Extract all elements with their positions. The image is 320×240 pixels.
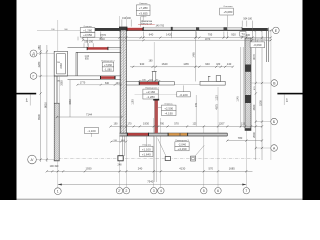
- bottom sheet edge line: [17, 199, 303, 200]
- axis bubble 3: [151, 188, 157, 194]
- axis bubble 6: [215, 188, 221, 194]
- axis bubble B right: [271, 118, 278, 125]
- svg-text:1465: 1465: [192, 52, 195, 58]
- svg-text:190 190: 190 190: [84, 41, 93, 44]
- axis bubble D left: [30, 50, 37, 57]
- svg-text:+5,080: +5,080: [223, 10, 232, 14]
- stub wall above wall V: [152, 72, 154, 82]
- thin line connecting wall V to T-wall: [175, 84, 201, 86]
- tick across left wall: [54, 102, 59, 104]
- svg-text:780: 780: [238, 136, 243, 140]
- pier between windows: [196, 27, 199, 30]
- svg-text:7144: 7144: [86, 112, 92, 116]
- svg-text:4130: 4130: [179, 167, 185, 171]
- red segment on wall V: [140, 82, 158, 85]
- mini dim line below wall B left: [111, 141, 127, 143]
- svg-text:345: 345: [195, 102, 198, 107]
- room A (stair shaft) outer rect: [54, 51, 67, 76]
- svg-text:190: 190: [51, 29, 54, 31]
- T-shaped partition wall outline: [200, 81, 225, 85]
- T4 box: [240, 32, 246, 36]
- leader from L13 to wall B: [145, 136, 147, 146]
- svg-text:3: 3: [153, 189, 155, 193]
- svg-text:А': А': [30, 158, 33, 162]
- cap of red vertical segment: [153, 99, 159, 101]
- wall on line G bottom of rooms: [54, 75, 121, 77]
- svg-text:190: 190: [114, 122, 119, 125]
- thin wall stub below wall B to column: [121, 136, 123, 156]
- svg-text:570: 570: [174, 121, 179, 125]
- axis bubble 7: [243, 188, 249, 194]
- svg-text:1770: 1770: [80, 82, 86, 85]
- axis bubble V right: [271, 80, 278, 87]
- axis bubble 2': [116, 188, 122, 194]
- svg-text:-1,080: -1,080: [104, 67, 112, 71]
- svg-text:1640: 1640: [162, 62, 168, 66]
- room B left wall double line: [75, 52, 77, 76]
- red segment on wall B: [128, 133, 148, 135]
- axis 7 vertical: [245, 34, 247, 187]
- extension ticks right wall top: [241, 21, 243, 27]
- svg-text:170: 170: [128, 122, 133, 125]
- svg-text:1190: 1190: [131, 99, 134, 105]
- svg-text:+3,655: +3,655: [139, 11, 148, 15]
- window band 1 x144-196: [144, 27, 197, 31]
- axis 5 vertical: [203, 127, 205, 188]
- svg-text:3080: 3080: [69, 99, 72, 105]
- svg-text:+7,060: +7,060: [104, 63, 113, 67]
- svg-text:+1,280: +1,280: [83, 28, 92, 32]
- svg-text:104: 104: [116, 82, 121, 85]
- axis 4 vertical: [159, 118, 161, 187]
- red segment on room B top wall: [88, 47, 108, 50]
- left vertical dim line 1: [40, 45, 42, 162]
- interior wall on line V: [126, 81, 174, 83]
- arrow heads row 3: [58, 184, 247, 186]
- vertical dim stub above wall B mid: [195, 95, 197, 126]
- red segment on wall G: [101, 76, 115, 79]
- axis bubble 2: [123, 188, 129, 194]
- svg-text:640: 640: [149, 33, 154, 37]
- top wall inner face dark continuous: [83, 29, 268, 31]
- leader from column B up right: [195, 145, 204, 156]
- svg-text:1: 1: [26, 97, 29, 102]
- svg-text:940: 940: [205, 62, 210, 66]
- thin interior line x195.5: [194, 30, 196, 81]
- svg-text:8610: 8610: [43, 102, 47, 108]
- leader to small square: [158, 139, 167, 157]
- svg-text:504 180: 504 180: [243, 17, 252, 20]
- svg-text:-4,190: -4,190: [165, 112, 174, 116]
- axis 3 vertical: [153, 118, 155, 187]
- box L10: [177, 92, 191, 97]
- top dimension line under wall E: [83, 37, 271, 39]
- right sheet inner vertical line: [270, 30, 272, 160]
- label L14: [84, 128, 98, 134]
- axis line E horizontal: [37, 29, 272, 31]
- right vertical dim line 2: [261, 30, 263, 160]
- dimension tick slashes: [82, 37, 272, 39]
- svg-text:-2,040: -2,040: [178, 143, 187, 147]
- svg-text:монолитная: монолитная: [253, 39, 266, 41]
- leader from box L10: [183, 85, 185, 91]
- svg-text:2080: 2080: [60, 80, 63, 86]
- extension ticks above room B: [83, 43, 85, 47]
- window mullion pier: [171, 27, 173, 31]
- room A inner rect: [57, 54, 66, 74]
- svg-text:2640: 2640: [252, 132, 256, 138]
- axis 6 vertical: [217, 87, 219, 187]
- leader from red wall to L11: [158, 107, 162, 109]
- left outer wall hatched lower part: [54, 103, 59, 161]
- left black margin bar: [0, 0, 17, 200]
- window band 3 x227.3-242: [227, 27, 242, 31]
- axis line B horizontal: [255, 121, 271, 123]
- svg-text:900: 900: [64, 29, 67, 31]
- mini dim line below room B: [77, 84, 121, 86]
- axis bubble 5: [201, 188, 207, 194]
- room B top wall double line: [68, 47, 121, 49]
- svg-text:+2,160: +2,160: [146, 90, 155, 94]
- svg-text:280: 280: [37, 45, 41, 50]
- svg-text:840: 840: [105, 82, 110, 85]
- svg-text:1420: 1420: [166, 33, 172, 37]
- svg-text:Г: Г: [33, 74, 35, 78]
- axis line G horizontal: [37, 75, 56, 77]
- svg-text:1970: 1970: [205, 38, 211, 41]
- svg-text:8330: 8330: [37, 114, 41, 120]
- leader from elevation box L1: [142, 16, 144, 21]
- column square on axis 2' at A': [118, 156, 123, 161]
- svg-text:2280: 2280: [60, 63, 63, 69]
- red repair segment on top wall: [127, 28, 142, 31]
- central wall head block at top: [119, 27, 127, 32]
- axis bubble 4: [158, 188, 164, 194]
- svg-text:-0,090: -0,090: [253, 43, 262, 47]
- svg-text:+4,190: +4,190: [178, 147, 187, 151]
- extension verticals from wall to dim lines: [82, 32, 84, 41]
- room width dim 7144: [57, 116, 122, 118]
- thin axis pair under red wall: [153, 136, 155, 182]
- svg-text:1207: 1207: [219, 121, 225, 125]
- svg-text:-1,100: -1,100: [87, 129, 96, 133]
- svg-text:2': 2': [118, 189, 121, 193]
- small mark on T-wall: [208, 76, 210, 81]
- svg-text:Т4: Т4: [241, 32, 245, 36]
- svg-text:-0,220: -0,220: [179, 93, 188, 97]
- svg-text:1685: 1685: [229, 167, 235, 171]
- svg-text:248: 248: [118, 164, 123, 167]
- svg-text:190 190: 190 190: [50, 165, 59, 168]
- right black margin bar: [303, 0, 320, 200]
- svg-text:180: 180: [149, 60, 154, 63]
- axis line A' dash-dot across plan: [58, 158, 260, 160]
- svg-text:1465: 1465: [183, 63, 189, 66]
- leader from L10 box to wall: [135, 93, 177, 95]
- svg-text:240: 240: [138, 167, 143, 171]
- dim column right of left wall: [69, 80, 71, 117]
- axis line A horizontal: [255, 147, 271, 149]
- mid line of room B top band right of red: [109, 48, 121, 50]
- central hatched wall vertical: [121, 30, 127, 136]
- dim line above wall B: [111, 125, 263, 127]
- svg-text:940: 940: [140, 62, 145, 66]
- svg-text:6440: 6440: [99, 38, 105, 41]
- axis bubble 1: [54, 188, 61, 195]
- leader from -0,090 box: [256, 40, 258, 42]
- svg-text:+7,280: +7,280: [139, 6, 148, 10]
- bottom dim row 1: [47, 170, 253, 172]
- svg-text:140 700: 140 700: [155, 24, 164, 27]
- axis bubble A' left: [28, 155, 37, 164]
- dim line right of wall B end: [227, 140, 262, 142]
- axis bubble E right: [273, 27, 280, 34]
- bottom dim row 3 total: [58, 184, 247, 186]
- top wall solid right part x242-267.8: [242, 28, 268, 31]
- svg-text:180: 180: [216, 63, 221, 66]
- svg-text:140: 140: [227, 62, 232, 66]
- left vertical dim line 2: [46, 45, 48, 162]
- axis 2 vertical: [125, 16, 127, 187]
- axis line D horizontal: [37, 53, 68, 55]
- svg-text:3070: 3070: [252, 54, 256, 60]
- axis 1 vertical: [57, 20, 59, 188]
- leader from elevation box L4: [87, 37, 89, 46]
- svg-text:1: 1: [286, 98, 289, 103]
- svg-text:2820: 2820: [252, 104, 256, 110]
- leader from L14 down: [91, 133, 93, 137]
- svg-text:+3,650: +3,650: [83, 33, 92, 37]
- svg-text:5230: 5230: [258, 100, 262, 106]
- right vertical dim line 1: [255, 30, 257, 160]
- svg-text:2: 2: [125, 189, 127, 193]
- svg-text:7: 7: [245, 189, 247, 193]
- svg-text:4: 4: [160, 189, 162, 193]
- pier between windows 2: [224, 27, 228, 30]
- thin double line left of right wall: [240, 47, 242, 128]
- svg-text:6: 6: [217, 189, 219, 193]
- svg-text:4575: 4575: [216, 104, 219, 110]
- axis line A' horizontal left: [37, 159, 57, 161]
- svg-text:2280: 2280: [37, 61, 41, 67]
- axis line V horizontal: [252, 82, 271, 84]
- svg-text:констр. кл: констр. кл: [141, 23, 152, 25]
- interior wall on line B lower: [120, 133, 228, 136]
- svg-text:1120: 1120: [215, 95, 218, 101]
- dim line above T-wall room: [130, 66, 233, 68]
- svg-text:780: 780: [160, 122, 165, 125]
- left outer wall double line: [53, 51, 55, 103]
- svg-text:1: 1: [57, 190, 59, 194]
- section mark 1 left: [17, 93, 37, 106]
- orange segment on wall B: [169, 133, 188, 135]
- column square on axis A' mid: [191, 156, 196, 161]
- right outer wall vertical x266.4-268.4: [265, 30, 267, 62]
- svg-text:131: 131: [241, 122, 246, 125]
- svg-text:570: 570: [209, 167, 214, 171]
- svg-text:+2,500: +2,500: [164, 106, 173, 110]
- svg-text:+1,640: +1,640: [142, 153, 151, 157]
- bottom wall end cap left: [54, 160, 60, 162]
- svg-text:795: 795: [208, 33, 213, 37]
- svg-text:7540: 7540: [147, 180, 153, 184]
- svg-text:1930: 1930: [143, 121, 149, 125]
- svg-text:125: 125: [193, 122, 198, 125]
- tick ends of red segment: [126, 27, 127, 30]
- top wall solid left segment: [83, 28, 120, 31]
- small square marker on axis A' left: [165, 157, 170, 161]
- svg-text:1145: 1145: [237, 96, 240, 102]
- inner slot line of left wall: [59, 76, 61, 103]
- axis bubble G left: [30, 73, 37, 80]
- svg-text:3770: 3770: [100, 33, 106, 37]
- mini dim line above wall V: [139, 80, 159, 82]
- svg-text:1930: 1930: [86, 167, 92, 171]
- top dimension line 2 under wall E: [83, 39, 271, 41]
- svg-text:5: 5: [203, 189, 205, 193]
- extension tick over top wall: [121, 20, 123, 27]
- red vertical wall segment near axis 3: [155, 101, 158, 134]
- leader from elevation box L5: [227, 15, 229, 26]
- dark blocks in right wall: [245, 65, 251, 72]
- axis bubble A right: [271, 145, 278, 152]
- T-wall stub up: [216, 76, 221, 82]
- svg-text:920: 920: [231, 33, 236, 37]
- svg-text:-1,280: -1,280: [146, 95, 155, 99]
- axis 2' vertical: [119, 16, 121, 187]
- svg-text:190 190: 190 190: [122, 17, 131, 20]
- right wall bottom cap: [245, 128, 251, 130]
- section mark 1 right: [277, 93, 302, 105]
- svg-text:+1,100: +1,100: [142, 147, 151, 151]
- window band 2 x199-223.5: [199, 27, 223, 28]
- right mid hatched wall on axis 7: [245, 38, 251, 131]
